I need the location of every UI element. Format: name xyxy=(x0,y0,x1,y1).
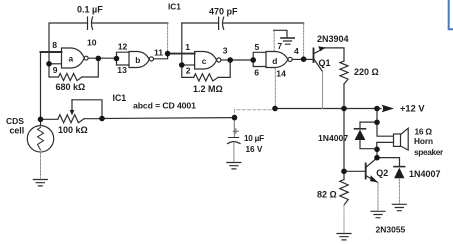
wire speaker-bottom node to Q2 collector xyxy=(376,149,378,157)
resistor 680 kOhm xyxy=(59,73,83,80)
node CDS divider xyxy=(38,117,44,123)
svg-text:b: b xyxy=(135,55,140,65)
svg-text:IC1: IC1 xyxy=(113,93,127,103)
ground diode2 xyxy=(392,204,406,210)
wire Q2 collector to diode2 xyxy=(377,158,400,167)
diode D2 1N4007 (collector clamp) xyxy=(394,167,405,204)
svg-text:abcd = CD 4001: abcd = CD 4001 xyxy=(133,100,196,110)
svg-text:12: 12 xyxy=(118,42,128,52)
svg-text:6: 6 xyxy=(254,68,259,78)
wire 470pF top wire right part xyxy=(224,23,304,24)
gate c output bubble xyxy=(217,58,221,62)
svg-text:1: 1 xyxy=(185,42,190,52)
ground 10uF xyxy=(227,163,241,169)
node pin2 xyxy=(179,62,185,68)
gate d output bubble xyxy=(288,57,292,61)
wire pin 9 stub xyxy=(49,63,62,65)
wire 220R to rail xyxy=(343,84,345,109)
svg-text:470 pF: 470 pF xyxy=(209,6,238,16)
resistor 1.2 MOhm xyxy=(194,74,218,81)
wire 470pF top wire left part xyxy=(182,22,219,24)
ground Q2 emitter xyxy=(371,211,385,217)
decorative blue corner line xyxy=(449,0,453,29)
wire gate d output to node 4 xyxy=(292,58,303,60)
node 11 xyxy=(165,51,171,57)
svg-text:IC1: IC1 xyxy=(168,1,181,11)
ground CDS xyxy=(33,180,47,186)
transistor Q1 2N3904 xyxy=(314,46,326,71)
wire node10 to gate b input xyxy=(88,57,116,59)
capacitor 10uF 16V electrolytic xyxy=(228,118,241,162)
node 220R rail xyxy=(341,106,347,112)
wire +12V rail xyxy=(275,108,381,110)
svg-text:cell: cell xyxy=(10,126,25,136)
svg-text:16 Ω: 16 Ω xyxy=(415,126,433,136)
wire node11 to gate c pin 1 xyxy=(168,53,195,55)
wire rail to speaker-top node xyxy=(376,109,378,123)
svg-text:1N4007: 1N4007 xyxy=(318,133,348,143)
ground 82R xyxy=(337,234,351,240)
node pot wiper xyxy=(99,116,105,122)
diode D1 1N4007 (across speaker) xyxy=(355,122,378,149)
svg-text:Q1: Q1 xyxy=(319,58,331,68)
svg-text:2N3904: 2N3904 xyxy=(317,34,349,44)
capacitor C 0.1uF xyxy=(88,17,93,29)
wire pin 7 stub (faint) xyxy=(273,30,275,51)
resistor 220 Ohm xyxy=(340,61,348,84)
svg-text:speaker: speaker xyxy=(414,147,444,157)
gate b input tie bar pins 12/13 xyxy=(117,52,130,65)
wire gate b output to node 11 xyxy=(154,54,168,59)
node speaker rail xyxy=(374,106,380,112)
node 10 xyxy=(96,56,102,62)
wire 0.1uF-left top wire and vertical to pin 9 node xyxy=(49,23,88,64)
wire 680k right lead up to node 10 xyxy=(82,58,98,77)
svg-text:5: 5 xyxy=(255,42,260,52)
svg-text:7: 7 xyxy=(277,41,282,51)
svg-text:Q2: Q2 xyxy=(376,168,388,178)
node gate-d input xyxy=(250,57,256,63)
node pin14 rail xyxy=(272,106,278,112)
wire mid horizontal pot to 10uF node xyxy=(102,117,235,120)
svg-text:2N3055: 2N3055 xyxy=(376,224,406,234)
node speaker top xyxy=(374,120,380,126)
svg-text:4: 4 xyxy=(294,46,299,56)
svg-text:680 kΩ: 680 kΩ xyxy=(56,82,86,92)
wire pin 2 stub xyxy=(182,64,195,66)
svg-text:8: 8 xyxy=(52,40,57,50)
wire CDS cell to ground xyxy=(40,152,42,178)
svg-text:1N4007: 1N4007 xyxy=(409,169,441,179)
capacitor C 470pF xyxy=(219,17,224,29)
NOR gate IC1a xyxy=(62,48,85,68)
transistor Q2 2N3055 xyxy=(366,158,378,182)
wire pin2-node down to 1.2M xyxy=(182,65,194,77)
svg-text:82 Ω: 82 Ω xyxy=(317,189,337,199)
ground pin7 xyxy=(281,37,294,39)
photocell CDS cell xyxy=(27,119,53,152)
potentiometer 100 kOhm xyxy=(41,100,103,123)
wire 1.2M right lead up to node 3 xyxy=(218,60,230,77)
wire 82R to ground xyxy=(343,205,345,233)
wire node3 to gate d input xyxy=(230,59,253,61)
power arrow +12V xyxy=(382,105,395,113)
svg-text:10 µF: 10 µF xyxy=(244,134,264,143)
svg-text:16 V: 16 V xyxy=(246,145,263,154)
node gate-b input xyxy=(114,56,120,62)
wire rail to Q2 base node xyxy=(343,109,345,172)
wire left vertical rail to CDS node xyxy=(40,52,42,119)
node 4 xyxy=(301,56,307,62)
wire node 4 to Q1 base xyxy=(304,58,314,60)
node Q2 base xyxy=(341,169,347,175)
svg-text:14: 14 xyxy=(276,69,286,79)
wire top wire down to node 11 (faint) xyxy=(167,24,169,52)
wire pin 14 down to +12 rail xyxy=(274,68,276,109)
wire speaker bottom lead xyxy=(377,142,394,149)
wire pin9-node down to 680k xyxy=(49,64,59,77)
NOR gate IC1c xyxy=(195,52,217,70)
node 3 xyxy=(227,57,233,63)
svg-text:CDS: CDS xyxy=(6,116,24,126)
wire Q2 base node to base xyxy=(344,170,366,172)
svg-text:11: 11 xyxy=(154,47,163,57)
svg-text:220 Ω: 220 Ω xyxy=(354,67,379,77)
wire gate c output to node 3 xyxy=(221,59,230,61)
svg-text:Horn: Horn xyxy=(414,136,433,146)
NOR gate IC1d xyxy=(266,52,288,68)
node pin9 xyxy=(46,61,52,67)
svg-text:a: a xyxy=(69,53,74,63)
svg-text:13: 13 xyxy=(117,65,127,75)
wire pin 8 input from CDS divider xyxy=(41,51,62,53)
svg-text:+12 V: +12 V xyxy=(400,103,425,113)
node Q2 collector xyxy=(374,155,380,161)
wire Q1 collector down to rail xyxy=(322,72,324,109)
svg-text:1.2 MΩ: 1.2 MΩ xyxy=(193,84,223,94)
svg-text:3: 3 xyxy=(223,46,228,56)
svg-text:0.1 µF: 0.1 µF xyxy=(77,4,103,14)
svg-text:100 kΩ: 100 kΩ xyxy=(58,125,88,135)
speaker 16 Ohm horn xyxy=(394,128,409,150)
svg-text:d: d xyxy=(272,56,277,66)
wire pin 7 to ground xyxy=(274,30,287,38)
wire 0.1uF-right top wire xyxy=(93,22,168,24)
svg-text:10: 10 xyxy=(87,37,97,47)
wire 10uF-node rise to +12 rail (faint) xyxy=(235,110,276,118)
gate b output bubble xyxy=(149,57,153,61)
wire speaker top lead xyxy=(377,122,394,136)
gate a output bubble xyxy=(84,56,88,60)
svg-text:9: 9 xyxy=(53,65,58,75)
NOR gate IC1b xyxy=(129,52,149,68)
node speaker bottom xyxy=(374,147,380,153)
wire down to node 4 (faint) xyxy=(303,24,305,59)
svg-text:2: 2 xyxy=(186,65,191,75)
wire 470pF left vertical xyxy=(181,23,183,65)
wire Q2 emitter to ground xyxy=(377,182,379,211)
resistor 82 Ohm xyxy=(343,171,345,179)
wire Q1 emitter to 220R xyxy=(325,48,345,61)
svg-text:c: c xyxy=(202,56,207,66)
gate d input tie bar pins 5/6 xyxy=(253,52,266,66)
node 10uF xyxy=(232,115,238,121)
